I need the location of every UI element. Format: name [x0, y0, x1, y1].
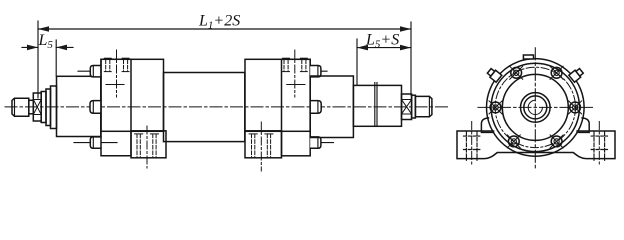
left wing bolt hole dashed edges — [466, 132, 477, 160]
foot 2 hole top marks — [249, 133, 257, 135]
tie rod nut stub top-left — [90, 66, 101, 77]
cap 2 (right cylinder head) — [310, 76, 353, 138]
foot 2 bolt holes (dashed) — [252, 134, 271, 157]
dimension extension line L5 right (x=56.2) — [55, 40, 57, 76]
flange 2 vertical centerline — [294, 50, 296, 97]
dimension extension line left (x=38) — [37, 21, 39, 98]
flange bolt lower-left — [507, 135, 520, 148]
bracket step edge right — [577, 131, 589, 133]
cap 1 (left cylinder head) — [57, 76, 101, 136]
dimension line L5 (arrows outside) — [22, 45, 73, 51]
tie rod nut stub bottom-right — [310, 137, 321, 148]
internal passage line 3 — [287, 84, 305, 86]
tie rod axis line bottom-left — [74, 142, 117, 144]
foot 1 bolt holes (dashed) — [137, 134, 156, 157]
tie rod axis line top-left — [78, 70, 101, 72]
flange second circle — [491, 63, 579, 151]
cylinder tube — [164, 73, 245, 142]
right rod thread tip — [415, 96, 432, 116]
hub circle inner — [528, 100, 542, 114]
bracket step edge left — [481, 131, 493, 133]
flange 2 tie-rod holes (dashed, top) — [284, 60, 306, 71]
foot 1 hole axis centerline — [146, 126, 148, 168]
top tab on flange — [523, 55, 533, 59]
flange bolt left (9 o'clock) — [489, 101, 502, 114]
foot 2 base — [245, 131, 282, 158]
bracket ear right — [582, 118, 589, 131]
dimension extension line right (x=411) — [410, 22, 412, 95]
main horizontal centerline — [5, 106, 449, 108]
right rod lock nut with X — [402, 94, 412, 120]
flange block 1 outer column — [101, 59, 131, 156]
6 bolts — [489, 66, 582, 148]
dimension extension line L5+S left (x=357) — [356, 39, 358, 85]
tie rod axis line top-right — [310, 70, 327, 72]
flange bolt lower-right — [550, 135, 563, 148]
left rod thread tip — [12, 98, 29, 116]
left rod collar 2 — [46, 89, 51, 126]
left rod lock nut with X — [33, 93, 41, 121]
end view horizontal centerline — [478, 106, 593, 108]
tie rod axis line bottom-right — [310, 142, 333, 144]
flange bolt right (3 o'clock) — [569, 101, 582, 114]
end view vertical centerline — [534, 48, 536, 170]
right wing hole axis — [598, 122, 600, 166]
internal passage line 1 — [106, 84, 124, 86]
tie rod nut stub bottom-left — [90, 137, 101, 148]
rod ring line a — [374, 83, 376, 127]
flange 1 vertical centerline — [116, 50, 118, 97]
right rod collar — [412, 95, 416, 118]
left rod neck — [29, 100, 34, 114]
upper-right lug — [569, 67, 584, 82]
svg-text:L1+2S: L1+2S — [198, 13, 240, 32]
flange outer circle — [487, 59, 585, 157]
bolt circle (dash-dot) — [495, 67, 575, 147]
flange bolt upper-right — [550, 66, 563, 79]
tie rod nut stub top-right — [310, 66, 321, 77]
cushion stub middle-right — [310, 101, 321, 114]
foot 1 hole top marks — [135, 133, 143, 135]
left exposed rod — [51, 86, 57, 129]
flange block 1 top — [101, 59, 164, 131]
hub circle outer — [521, 93, 551, 123]
tube circle — [502, 74, 568, 140]
foot 1 base — [131, 131, 166, 158]
cushion stub middle-left — [90, 101, 101, 114]
hub circle mid — [524, 96, 547, 119]
foot 2 hole axis centerline — [260, 122, 262, 171]
upper-left lug — [486, 67, 501, 82]
flange 1 tie-rod holes (dashed, top) — [106, 60, 128, 71]
rod ring line b — [376, 83, 378, 127]
foot bracket outline — [457, 131, 615, 159]
right wing hole cross dashes — [591, 135, 607, 137]
bracket ear left — [481, 118, 488, 131]
left rod collar 1 — [41, 92, 46, 123]
left wing hole axis — [471, 122, 473, 166]
extended right rod — [353, 85, 401, 126]
svg-text:L5+S: L5+S — [365, 32, 399, 51]
left wing hole cross dashes — [464, 135, 480, 137]
dimension line L1+2S — [38, 26, 411, 32]
flange block 2 top — [245, 59, 310, 131]
dimension line L5+S (arrows inside) — [357, 45, 411, 51]
flange block 2 outer column — [282, 59, 311, 156]
flange bolt upper-left — [510, 66, 523, 79]
right wing bolt hole dashed edges — [594, 132, 605, 160]
